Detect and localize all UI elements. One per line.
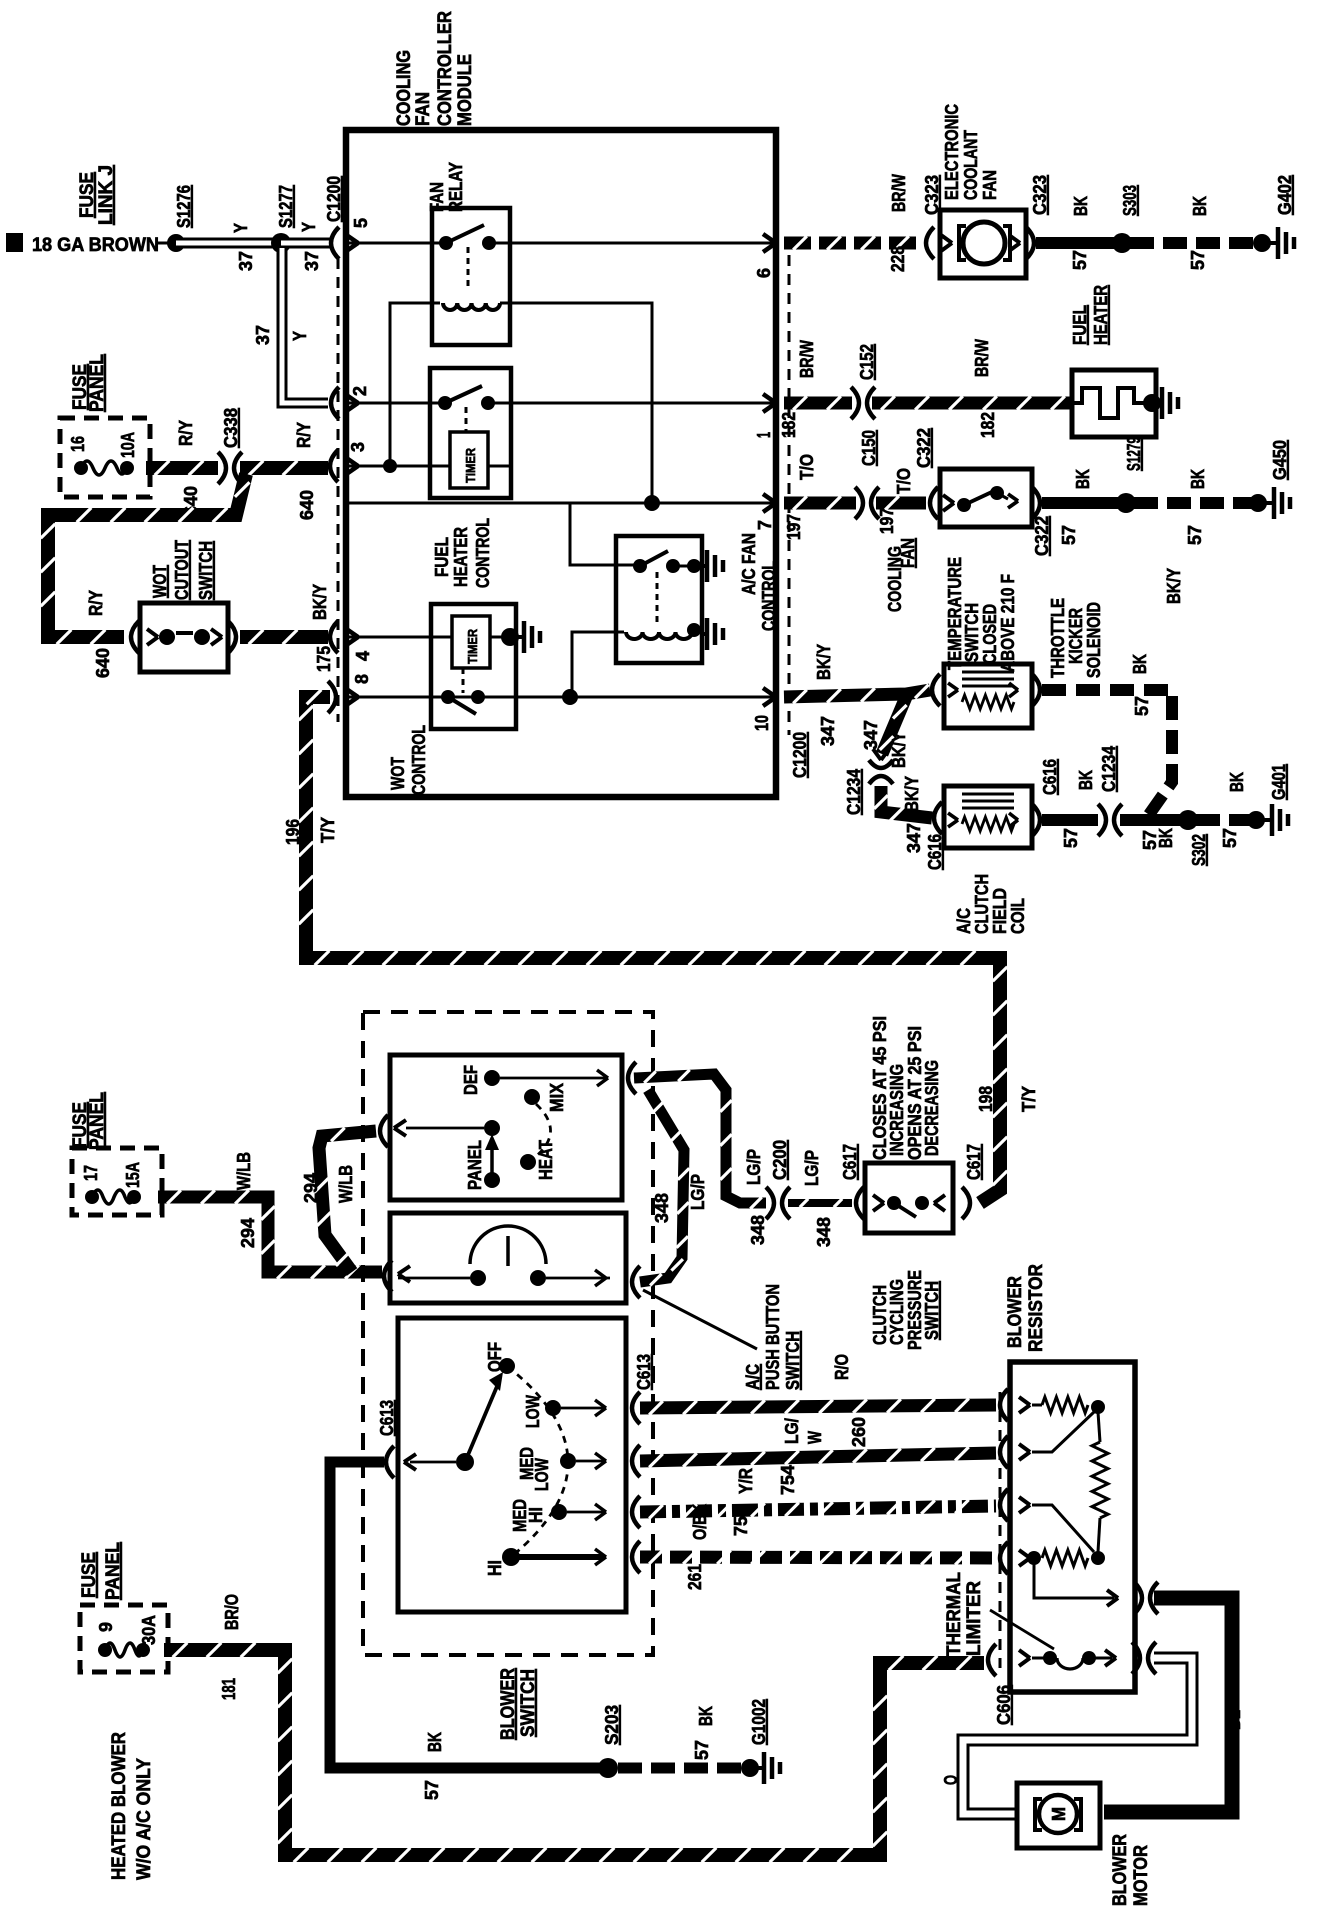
wire 640 R/Y fuse16 to C338 [146, 461, 218, 475]
cooling fan temperature switch box [940, 469, 1032, 527]
svg-text:C322: C322 [914, 428, 934, 468]
svg-text:754: 754 [778, 1465, 798, 1495]
svg-text:181: 181 [219, 1678, 239, 1700]
svg-text:THROTTLE: THROTTLE [1048, 598, 1068, 678]
svg-text:752: 752 [731, 1506, 751, 1536]
svg-text:RESISTOR: RESISTOR [1026, 1264, 1047, 1352]
svg-text:MODULE: MODULE [455, 54, 476, 126]
svg-text:175: 175 [314, 646, 334, 672]
svg-text:R/Y: R/Y [294, 422, 314, 448]
svg-text:CONTROL: CONTROL [409, 725, 429, 795]
pin 4 arrow [345, 628, 358, 637]
svg-text:G402: G402 [1275, 175, 1295, 215]
wire 18ga to S1276 [158, 242, 170, 245]
svg-text:15A: 15A [123, 1162, 143, 1188]
svg-text:1: 1 [754, 432, 774, 438]
ground a/c fan switch [700, 564, 706, 568]
svg-text:SWITCH: SWITCH [962, 603, 982, 662]
svg-text:C1234: C1234 [844, 769, 864, 815]
svg-text:FUSE: FUSE [79, 1552, 100, 1598]
svg-text:CLOSED: CLOSED [980, 604, 1000, 664]
wire 752 Y/R blower MED HI to resistor [640, 1506, 996, 1512]
wot cutout switch box [140, 603, 228, 672]
svg-text:MIX: MIX [547, 1083, 567, 1112]
blower motor box [1017, 1783, 1100, 1848]
svg-text:640: 640 [297, 490, 317, 520]
pin 3 arrow [345, 457, 358, 466]
svg-text:37: 37 [236, 251, 256, 271]
pin 1 arrow [763, 394, 776, 403]
fan motor symbol [963, 222, 1005, 264]
resistor input arcs [1000, 1389, 1008, 1421]
svg-text:SOLENOID: SOLENOID [1084, 602, 1104, 678]
wire 57 BK solenoid to S302 (dashed) [1042, 690, 1172, 816]
electronic coolant fan motor box [940, 210, 1026, 278]
svg-text:G401: G401 [1269, 764, 1289, 800]
svg-text:Y: Y [299, 222, 319, 232]
svg-text:W/LB: W/LB [234, 1152, 254, 1190]
wire 260 R/O blower LOW to resistor [640, 1405, 996, 1408]
connector arc into selector panel feed [380, 1115, 388, 1147]
svg-text:SWITCH: SWITCH [783, 1331, 803, 1390]
solenoid coil symbol [962, 671, 1014, 674]
svg-text:T/Y: T/Y [318, 817, 338, 843]
splice S302 [1178, 810, 1198, 830]
resistor input arrows [1019, 1397, 1030, 1405]
wire timer to box edge [488, 465, 511, 468]
selector dashed arc MIX-HEAT [534, 1104, 551, 1158]
fuel heater control switch [438, 396, 452, 410]
svg-text:PUSH BUTTON: PUSH BUTTON [763, 1284, 783, 1390]
wot control switch [441, 690, 455, 704]
connector C616 left [934, 802, 942, 834]
wire 57 BK S1279 to G450 [1134, 497, 1252, 509]
thermal limiter element [1032, 1657, 1044, 1660]
svg-text:BK: BK [1076, 770, 1096, 790]
svg-text:347: 347 [818, 716, 838, 746]
fan relay switch [439, 236, 453, 250]
wire relay coil right leg down to pin7 wire [500, 303, 652, 503]
svg-text:C323: C323 [1030, 175, 1050, 215]
junction dot pin3/relay coil [383, 459, 397, 473]
svg-text:T/Y: T/Y [1019, 1086, 1039, 1112]
resistor element bottom [1027, 1551, 1041, 1565]
svg-text:C606: C606 [994, 1685, 1014, 1725]
wire 294 W/LB fuse17 to control assy [158, 1197, 382, 1272]
connector arc at pin 8 [328, 681, 336, 713]
wire 57 BK S302 to G401 [1196, 814, 1250, 826]
connector C616 right [1032, 804, 1040, 836]
svg-text:A/C FAN: A/C FAN [739, 533, 759, 595]
wire 294 W/LB branch up to selector PANEL [319, 1131, 376, 1272]
wire 197 T/O pin7 to C150 [784, 497, 856, 510]
svg-text:CONTROL: CONTROL [759, 561, 779, 631]
svg-text:5: 5 [351, 218, 371, 228]
svg-text:WOT: WOT [150, 565, 170, 598]
svg-text:PANEL: PANEL [87, 1092, 108, 1150]
pin 10 arrow [763, 688, 776, 697]
svg-text:ELECTRONIC: ELECTRONIC [942, 104, 962, 200]
cooling fan controller module box [346, 130, 776, 797]
svg-text:MOTOR: MOTOR [1131, 1845, 1152, 1906]
wire 196 T/Y pin8 long run to C617 [306, 697, 1000, 1203]
svg-text:O/BK: O/BK [690, 1504, 710, 1540]
svg-text:57: 57 [1132, 696, 1152, 716]
svg-text:BK/Y: BK/Y [902, 776, 922, 812]
connector C1200 at pin 5 [331, 227, 339, 259]
wire 228 BR/W pin6 to C323 [784, 237, 922, 250]
svg-text:S203: S203 [602, 1705, 622, 1745]
svg-text:C152: C152 [857, 344, 877, 380]
svg-text:T/O: T/O [894, 468, 914, 494]
svg-text:4: 4 [353, 651, 373, 661]
wire input2 to top node [1032, 1412, 1094, 1452]
resistor element top [1032, 1404, 1042, 1407]
wire 37 Y S1277 down to pin2 [282, 248, 328, 403]
svg-text:CONTROL: CONTROL [473, 518, 493, 588]
svg-text:LG/P: LG/P [744, 1149, 764, 1185]
wire 197 T/O C150 to C322 [876, 497, 926, 510]
svg-text:57: 57 [1070, 250, 1090, 270]
svg-text:TIMER: TIMER [465, 628, 480, 664]
svg-text:LIMITER: LIMITER [964, 1581, 985, 1656]
connector C152 [851, 387, 859, 419]
selector wiper arrow [484, 1172, 500, 1188]
wire 261 O/BK blower HI to resistor [640, 1557, 996, 1558]
fuel heater element [1072, 388, 1146, 418]
splice S1277 [271, 233, 291, 253]
svg-text:M: M [1049, 1807, 1069, 1821]
wire 37 Y S1276-S1277 [176, 238, 281, 249]
ground G1002 [741, 1759, 759, 1777]
svg-text:W/LB: W/LB [336, 1165, 356, 1203]
wire 57 BK S303 to G402 [1130, 237, 1256, 249]
svg-text:18 GA BROWN: 18 GA BROWN [32, 235, 159, 256]
connector C338 [218, 452, 226, 484]
fuse 9 element [98, 1643, 112, 1657]
connector C322 left [930, 487, 938, 519]
svg-text:FIELD: FIELD [990, 888, 1010, 934]
connector arc into push button feed [384, 1260, 392, 1292]
wire 181 BR/O fuse9 to thermal limiter [164, 1650, 984, 1855]
wire 57 BK blower common to S203 [330, 1462, 600, 1768]
clutch coil symbol [962, 793, 1014, 796]
svg-text:LG/: LG/ [782, 1418, 802, 1444]
fuse panel 9 dashed box [80, 1605, 168, 1672]
svg-text:57: 57 [1220, 828, 1240, 848]
svg-text:198: 198 [976, 1086, 996, 1112]
svg-text:57: 57 [1188, 250, 1208, 270]
blower switch box [398, 1318, 626, 1612]
svg-text:57: 57 [1059, 525, 1079, 545]
clutch cycling pressure switch box [865, 1163, 953, 1233]
svg-text:BK: BK [425, 1732, 445, 1752]
svg-text:C322: C322 [1032, 516, 1052, 556]
svg-text:BL: BL [1224, 1710, 1244, 1730]
wire pin4 to wot timer [346, 636, 452, 639]
svg-text:COIL: COIL [1008, 898, 1028, 934]
svg-text:6: 6 [754, 268, 774, 278]
fuel heater box [1072, 370, 1156, 437]
svg-text:CYCLING: CYCLING [887, 1279, 907, 1345]
fuel heater control timer box [450, 432, 488, 488]
wire fuel heater switch to pin 1 [488, 402, 776, 405]
a/c push button switch box [390, 1213, 626, 1303]
svg-text:S1279: S1279 [1124, 437, 1144, 471]
a/c fan control box [616, 536, 702, 663]
svg-text:16: 16 [68, 436, 88, 452]
svg-text:9: 9 [96, 1622, 116, 1632]
wot cutout switch contacts [159, 629, 175, 645]
resistor output wire [1034, 1564, 1114, 1598]
svg-text:CONTROLLER: CONTROLLER [435, 11, 456, 126]
svg-text:10: 10 [752, 715, 772, 731]
svg-text:THERMAL: THERMAL [944, 1572, 965, 1656]
wire 347 BK/Y branch down to C1234 [882, 697, 906, 754]
svg-text:BR/O: BR/O [222, 1594, 242, 1630]
resistor output arcs [1134, 1582, 1142, 1614]
pin 8 arrow [345, 688, 358, 697]
svg-text:347: 347 [861, 720, 881, 750]
throttle kicker solenoid box [944, 664, 1032, 728]
svg-text:HI: HI [526, 1507, 546, 1523]
svg-text:W: W [805, 1431, 825, 1444]
connector arc DEF output [628, 1062, 636, 1094]
wire 347 BK/Y C1234 to A/C clutch coil [881, 786, 932, 818]
wire 57 BK fan to S303 [1036, 237, 1114, 249]
svg-text:BLOWER: BLOWER [1110, 1834, 1131, 1906]
svg-text:57: 57 [1061, 828, 1081, 848]
connector C617 left [856, 1187, 864, 1219]
wire 57 BK clutch coil to C1234 [1042, 814, 1098, 826]
svg-text:BLOWER: BLOWER [1005, 1276, 1026, 1348]
svg-text:CUTOUT: CUTOUT [172, 540, 192, 600]
wire 182 BR/W pin1 to C152 [784, 397, 852, 410]
wire 348 LG/P DEF output to C200 [634, 1074, 766, 1203]
wire 754 LG/W blower MED LOW to resistor [640, 1453, 996, 1461]
C1200 dashed harness line right side [788, 255, 791, 735]
blower resistor box [1010, 1362, 1135, 1692]
svg-text:KICKER: KICKER [1066, 608, 1086, 664]
svg-text:BR/W: BR/W [889, 174, 909, 212]
wot control box [431, 604, 516, 729]
blower motor symbol [1039, 1795, 1077, 1833]
svg-text:COOLING: COOLING [394, 50, 415, 126]
wire pin5 to relay switch [346, 242, 446, 245]
connector C1200 at pin 2 [331, 387, 339, 419]
svg-text:294: 294 [238, 1218, 258, 1248]
thermal limiter output arcs [1132, 1642, 1140, 1674]
push button actuator symbol [470, 1226, 546, 1264]
thermal limiter input arrow [1019, 1650, 1030, 1658]
svg-text:ABOVE 210 F: ABOVE 210 F [998, 574, 1018, 672]
svg-text:Y: Y [290, 331, 310, 341]
connector C322 right [1032, 487, 1040, 519]
connector C1234 (branch) [873, 749, 881, 760]
fuse panel 16 dashed box [60, 418, 150, 497]
svg-text:FAN: FAN [427, 182, 447, 212]
fuel heater control box [430, 368, 511, 498]
svg-text:17: 17 [81, 1165, 101, 1181]
svg-text:HEAT: HEAT [536, 1140, 556, 1180]
svg-text:W/O A/C ONLY: W/O A/C ONLY [134, 1758, 155, 1880]
wire O thermal limiter to blower motor [963, 1658, 1192, 1814]
svg-text:PANEL: PANEL [103, 1542, 124, 1600]
svg-text:37: 37 [302, 251, 322, 271]
svg-text:SWITCH: SWITCH [518, 1669, 539, 1737]
svg-text:BK: BK [1156, 828, 1176, 848]
svg-text:C617: C617 [964, 1144, 984, 1180]
svg-text:BK/Y: BK/Y [814, 644, 834, 680]
wire 57 BK temp switch to S1279 [1042, 497, 1118, 509]
svg-text:182: 182 [978, 412, 998, 438]
svg-text:BK: BK [1071, 196, 1091, 216]
a/c fan control switch [633, 559, 647, 573]
svg-text:O: O [941, 1775, 961, 1785]
pin 6 arrow [763, 234, 776, 243]
leader line thermal limiter [990, 1610, 1054, 1649]
svg-text:348: 348 [652, 1193, 672, 1223]
wire 37 Y S1277-C1200 pin5 [281, 238, 330, 249]
svg-text:C338: C338 [221, 408, 241, 448]
connector right of solenoid [1032, 674, 1040, 706]
svg-text:BK: BK [1073, 469, 1093, 489]
fuse link (18 GA BROWN) terminal [6, 233, 23, 252]
svg-text:HEATED BLOWER: HEATED BLOWER [109, 1732, 130, 1880]
svg-text:37: 37 [253, 325, 273, 345]
svg-text:FUEL: FUEL [432, 537, 452, 577]
svg-text:BR/W: BR/W [972, 339, 992, 377]
svg-text:197: 197 [877, 508, 897, 534]
svg-text:2: 2 [350, 386, 370, 396]
junction dot pin10 wire / A-C coil [562, 689, 578, 705]
svg-text:TIMER: TIMER [463, 447, 478, 483]
C606 dashed connector line [999, 1392, 1002, 1668]
svg-text:C200: C200 [770, 1140, 790, 1180]
svg-text:R/Y: R/Y [86, 590, 106, 616]
pin 5 arrow [345, 234, 358, 243]
svg-text:G450: G450 [1270, 440, 1290, 480]
ground G450 [1249, 494, 1267, 512]
wire junction to a/c fan switch [570, 503, 652, 565]
svg-text:S303: S303 [1120, 185, 1140, 216]
function selector switch box [390, 1055, 622, 1200]
connector C200 [766, 1187, 774, 1219]
svg-text:LINK J: LINK J [96, 165, 117, 225]
svg-text:PANEL: PANEL [465, 1140, 485, 1190]
a/c clutch field coil box [944, 786, 1032, 848]
svg-text:8: 8 [352, 674, 372, 684]
svg-text:SWITCH: SWITCH [196, 541, 216, 600]
connector C323 left [926, 227, 934, 259]
connector C150 [855, 487, 863, 519]
svg-text:FUSE: FUSE [77, 172, 98, 218]
blower switch dashed arc [507, 1366, 568, 1557]
svg-text:3: 3 [348, 442, 368, 452]
svg-text:HI: HI [485, 1560, 505, 1576]
svg-text:COOLANT: COOLANT [961, 130, 981, 200]
svg-text:S1276: S1276 [174, 185, 194, 228]
svg-text:260: 260 [849, 1417, 869, 1447]
svg-text:C617: C617 [840, 1144, 860, 1180]
svg-text:S1277: S1277 [276, 185, 296, 228]
svg-text:7: 7 [755, 520, 775, 530]
svg-text:DEF: DEF [461, 1065, 481, 1095]
leader line to push button switch [643, 1290, 757, 1349]
ground a/c fan coil [700, 632, 706, 636]
wire 182 BR/W C152 to fuel heater [872, 397, 1070, 410]
svg-text:C613: C613 [634, 1354, 654, 1390]
svg-text:FAN: FAN [980, 170, 1000, 200]
svg-text:A/C: A/C [954, 908, 974, 934]
svg-text:30A: 30A [139, 1615, 159, 1645]
svg-text:BK/Y: BK/Y [310, 584, 330, 620]
fuse 16 element [74, 461, 88, 475]
wire pin3 to timer [346, 465, 450, 468]
svg-text:BK/Y: BK/Y [1164, 568, 1184, 604]
svg-text:R/Y: R/Y [176, 420, 196, 446]
connector arc push button output [632, 1266, 640, 1298]
fan relay box [432, 208, 510, 345]
wire pin7 junction [346, 502, 776, 505]
svg-text:T/O: T/O [797, 454, 817, 480]
svg-text:Y: Y [231, 223, 251, 233]
svg-text:FAN: FAN [413, 92, 434, 126]
wire 347 BK/Y pin10 to solenoid [784, 690, 930, 697]
push button contacts [470, 1270, 486, 1286]
svg-text:197: 197 [784, 514, 804, 540]
a/c fan control relay coil [626, 632, 692, 639]
svg-text:348: 348 [748, 1215, 768, 1245]
svg-text:A/C: A/C [743, 1364, 763, 1390]
svg-text:294: 294 [301, 1173, 321, 1203]
wire BL resistor to blower motor [1104, 1598, 1232, 1812]
splice S1276 [167, 234, 185, 252]
svg-text:G1002: G1002 [749, 1699, 769, 1745]
C1200 dashed harness line left side [337, 258, 340, 722]
svg-text:WOT: WOT [388, 757, 408, 790]
svg-text:C1234: C1234 [1099, 746, 1119, 792]
svg-text:196: 196 [283, 819, 303, 845]
svg-text:C613: C613 [377, 1400, 397, 1436]
pin 2 arrow [345, 394, 358, 403]
svg-text:RELAY: RELAY [446, 162, 466, 212]
svg-text:Y/R: Y/R [736, 1468, 756, 1494]
svg-text:BLOWER: BLOWER [498, 1668, 519, 1740]
svg-text:BR/W: BR/W [797, 340, 817, 378]
wire 640 R/Y C338 to pin 3 [240, 461, 328, 475]
connector C617 right side of pressure switch [962, 1187, 970, 1219]
splice S303 [1112, 233, 1132, 253]
connector arc C606 thermal limiter input [988, 1644, 996, 1676]
splice S1279 [1116, 493, 1136, 513]
svg-text:BK: BK [1130, 654, 1150, 674]
ground wot timer [516, 635, 522, 639]
fuel heater ground [1143, 394, 1161, 412]
ground G402 [1253, 234, 1271, 252]
svg-text:57: 57 [1185, 525, 1205, 545]
wire 57 BK C1234 to S302 [1120, 814, 1180, 826]
vertical resistor element [1098, 1412, 1100, 1442]
svg-text:S302: S302 [1189, 834, 1209, 866]
wire input3 to bottom node [1032, 1505, 1094, 1552]
wire pin8 through wot switch to pin 10 [346, 696, 776, 699]
pin 7 arrow [763, 494, 776, 503]
svg-text:FUEL: FUEL [1070, 305, 1090, 345]
svg-text:BK: BK [1188, 469, 1208, 489]
svg-text:HEATER: HEATER [451, 527, 471, 587]
svg-text:LOW: LOW [532, 1458, 552, 1491]
